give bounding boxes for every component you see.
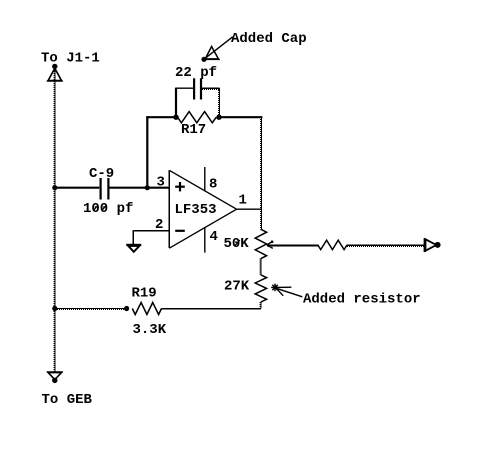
node junction input rail <box>52 185 57 190</box>
wire feedback top left <box>146 116 176 118</box>
resistor R17 <box>178 112 217 123</box>
wire feedback top right <box>219 116 262 118</box>
off-page connector arrow right (output) <box>425 238 441 252</box>
wire R19 to 27K <box>162 308 261 310</box>
wire feedback vertical left <box>146 116 148 187</box>
wire cap loop right vertical <box>218 88 220 115</box>
wire between 50K and 27K <box>260 259 262 275</box>
wire C-9 to op-amp pin 3 <box>110 187 170 189</box>
resistor 27K <box>255 275 266 302</box>
svg-text:4: 4 <box>210 229 218 245</box>
resistor output series <box>318 240 347 249</box>
wire cap loop left horizontal <box>175 87 193 89</box>
off-page connector arrow down (To GEB) <box>47 372 63 383</box>
potentiometer 50K <box>255 229 266 258</box>
annotation Added Cap arrow <box>201 37 232 62</box>
capacitor C-9 <box>101 178 109 200</box>
node junction R17 left <box>173 115 178 120</box>
wire input to C-9 <box>55 187 100 189</box>
svg-text:27K: 27K <box>224 279 250 295</box>
svg-text:100 pf: 100 pf <box>83 201 133 217</box>
svg-text:3: 3 <box>157 175 165 191</box>
wire pin 2 horizontal <box>133 230 169 232</box>
op-amp minus input mark <box>175 230 185 232</box>
svg-text:R19: R19 <box>132 286 157 302</box>
pin 4 power line <box>204 227 206 252</box>
svg-text:Added Cap: Added Cap <box>231 31 307 47</box>
wire 27K bottom <box>260 302 262 309</box>
off-page connector arrow up (To J1-1) <box>47 64 63 81</box>
resistor R19 <box>132 303 161 315</box>
svg-text:Added resistor: Added resistor <box>303 292 421 308</box>
svg-text:22 pf: 22 pf <box>175 65 217 81</box>
node junction pin 3 feedback <box>145 185 150 190</box>
wire left rail vertical <box>54 69 56 371</box>
pin 8 power line <box>204 167 206 191</box>
svg-text:To GEB: To GEB <box>42 392 93 408</box>
node junction R17 right <box>216 115 221 120</box>
wire right rail vertical top <box>261 117 263 229</box>
op-amp U1 LF353 <box>168 170 236 248</box>
wire output to arrow <box>347 244 425 246</box>
wire op-amp output pin 1 <box>237 208 263 210</box>
wire wiper to output resistor <box>267 244 318 246</box>
node junction R19 left <box>124 306 129 311</box>
node junction R19 rail <box>52 306 57 311</box>
slashed zero marks <box>94 205 240 245</box>
svg-text:To J1-1: To J1-1 <box>41 51 100 67</box>
capacitor 22 pf <box>194 78 201 99</box>
svg-text:C-9: C-9 <box>89 166 114 182</box>
svg-text:R17: R17 <box>181 122 206 138</box>
svg-text:8: 8 <box>209 177 217 193</box>
ground <box>126 245 141 252</box>
wire pin 2 to ground <box>132 231 134 245</box>
svg-text:3.3K: 3.3K <box>133 322 167 338</box>
svg-text:1: 1 <box>239 193 247 209</box>
annotation Added resistor arrow <box>271 284 302 297</box>
wire cap loop right horizontal <box>202 87 220 89</box>
op-amp plus input mark <box>175 182 185 191</box>
wire cap loop left vertical <box>175 88 177 116</box>
wire rail to R19 <box>55 308 127 310</box>
svg-text:LF353: LF353 <box>175 202 217 218</box>
potentiometer wiper arrow <box>267 241 274 249</box>
